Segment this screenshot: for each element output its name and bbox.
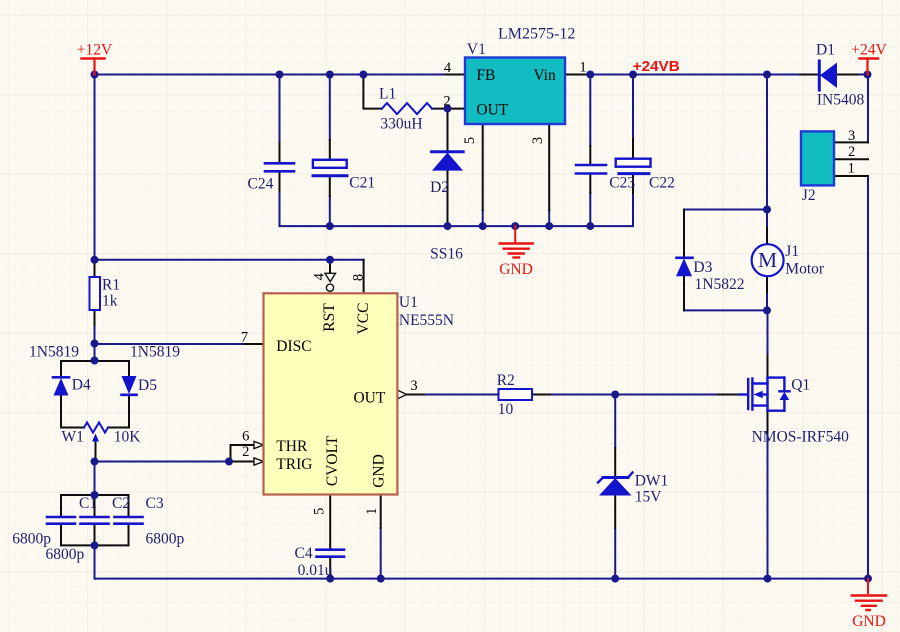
- svg-text:C1: C1: [79, 495, 97, 512]
- svg-text:1N5819: 1N5819: [29, 344, 79, 361]
- svg-text:VCC: VCC: [355, 303, 372, 335]
- svg-text:6800p: 6800p: [146, 531, 185, 548]
- svg-text:M: M: [758, 248, 777, 272]
- svg-text:SS16: SS16: [430, 246, 463, 263]
- svg-text:C2: C2: [112, 495, 130, 512]
- svg-text:D2: D2: [430, 179, 449, 196]
- svg-text:C23: C23: [609, 175, 635, 192]
- svg-text:5: 5: [462, 137, 478, 144]
- svg-text:6800p: 6800p: [12, 531, 51, 548]
- svg-text:IN5408: IN5408: [817, 92, 865, 109]
- svg-text:D1: D1: [816, 42, 835, 59]
- svg-text:4: 4: [311, 272, 327, 280]
- svg-text:Q1: Q1: [791, 377, 810, 394]
- svg-text:OUT: OUT: [476, 102, 508, 119]
- svg-text:U1: U1: [399, 294, 418, 311]
- svg-text:Motor: Motor: [785, 261, 825, 278]
- svg-text:5: 5: [312, 508, 328, 515]
- svg-text:1: 1: [579, 60, 586, 76]
- svg-text:OUT: OUT: [353, 390, 385, 407]
- svg-text:6: 6: [242, 429, 249, 445]
- svg-text:+24V: +24V: [851, 42, 887, 59]
- svg-text:3: 3: [530, 137, 546, 144]
- svg-text:6800p: 6800p: [46, 546, 85, 563]
- svg-text:L1: L1: [379, 86, 396, 103]
- svg-text:THR: THR: [276, 438, 308, 455]
- svg-text:3: 3: [848, 128, 855, 144]
- svg-text:J2: J2: [802, 187, 816, 204]
- svg-text:+24VB: +24VB: [633, 58, 680, 75]
- svg-text:C4: C4: [295, 545, 313, 562]
- svg-text:8: 8: [350, 274, 366, 281]
- svg-text:D4: D4: [72, 377, 91, 394]
- svg-text:GND: GND: [499, 261, 533, 278]
- svg-text:4: 4: [444, 60, 452, 76]
- svg-text:3: 3: [410, 378, 417, 394]
- svg-text:C22: C22: [649, 175, 675, 192]
- svg-text:J1: J1: [785, 243, 799, 260]
- svg-text:LM2575-12: LM2575-12: [498, 26, 575, 43]
- svg-text:R1: R1: [102, 277, 120, 294]
- svg-text:D3: D3: [693, 259, 712, 276]
- svg-text:C21: C21: [349, 175, 375, 192]
- svg-text:1: 1: [848, 161, 855, 177]
- svg-text:7: 7: [241, 330, 248, 346]
- svg-text:CVOLT: CVOLT: [324, 435, 341, 486]
- svg-text:C3: C3: [146, 495, 164, 512]
- svg-text:C24: C24: [248, 176, 274, 193]
- svg-text:D5: D5: [138, 377, 157, 394]
- svg-text:W1: W1: [62, 429, 84, 446]
- svg-text:RST: RST: [321, 303, 338, 332]
- svg-text:1k: 1k: [102, 293, 118, 310]
- svg-text:NE555N: NE555N: [399, 312, 454, 329]
- svg-text:2: 2: [242, 444, 249, 460]
- svg-text:0.01u: 0.01u: [298, 562, 333, 579]
- svg-text:2: 2: [443, 94, 450, 110]
- svg-text:TRIG: TRIG: [276, 456, 312, 473]
- svg-text:330uH: 330uH: [380, 116, 422, 133]
- svg-text:1N5819: 1N5819: [130, 344, 180, 361]
- svg-text:15V: 15V: [635, 489, 663, 506]
- svg-text:1N5822: 1N5822: [695, 276, 745, 293]
- svg-text:10K: 10K: [114, 429, 142, 446]
- svg-text:+12V: +12V: [77, 42, 113, 59]
- svg-text:NMOS-IRF540: NMOS-IRF540: [752, 429, 850, 446]
- svg-text:GND: GND: [852, 613, 886, 630]
- svg-text:FB: FB: [476, 67, 495, 84]
- svg-text:DW1: DW1: [635, 473, 669, 490]
- svg-text:R2: R2: [497, 372, 515, 389]
- svg-text:2: 2: [848, 144, 855, 160]
- svg-text:DISC: DISC: [276, 338, 311, 355]
- svg-text:V1: V1: [467, 41, 486, 58]
- svg-text:Vin: Vin: [533, 67, 556, 84]
- svg-text:10: 10: [498, 401, 514, 418]
- svg-text:1: 1: [364, 508, 380, 515]
- svg-text:GND: GND: [371, 454, 388, 488]
